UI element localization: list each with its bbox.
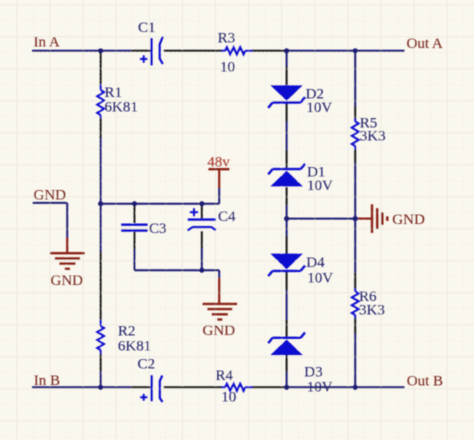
svg-text:6K81: 6K81 xyxy=(105,99,138,115)
svg-text:GND: GND xyxy=(34,187,67,203)
svg-text:R2: R2 xyxy=(118,323,136,339)
svg-text:D3: D3 xyxy=(304,364,322,380)
svg-text:GND: GND xyxy=(203,323,236,339)
svg-text:C4: C4 xyxy=(218,209,236,225)
svg-text:C2: C2 xyxy=(138,356,156,372)
svg-text:In B: In B xyxy=(34,373,60,389)
svg-text:10: 10 xyxy=(220,59,235,75)
svg-text:10V: 10V xyxy=(307,380,333,396)
svg-text:R4: R4 xyxy=(216,368,234,384)
svg-text:Out A: Out A xyxy=(407,36,443,52)
svg-text:10V: 10V xyxy=(306,100,332,116)
svg-text:48v: 48v xyxy=(207,155,230,171)
svg-text:C3: C3 xyxy=(149,221,167,237)
svg-text:D4: D4 xyxy=(306,255,325,271)
svg-text:10V: 10V xyxy=(307,178,333,194)
svg-text:R3: R3 xyxy=(218,30,236,46)
svg-text:6K81: 6K81 xyxy=(118,339,151,355)
svg-text:Out B: Out B xyxy=(407,374,443,390)
svg-text:In A: In A xyxy=(34,35,60,51)
svg-text:3K3: 3K3 xyxy=(359,303,385,319)
svg-text:3K3: 3K3 xyxy=(360,129,386,145)
svg-text:C1: C1 xyxy=(138,20,156,36)
svg-text:GND: GND xyxy=(51,273,84,289)
svg-text:10: 10 xyxy=(221,389,236,405)
svg-text:GND: GND xyxy=(392,212,425,228)
svg-text:10V: 10V xyxy=(307,270,333,286)
